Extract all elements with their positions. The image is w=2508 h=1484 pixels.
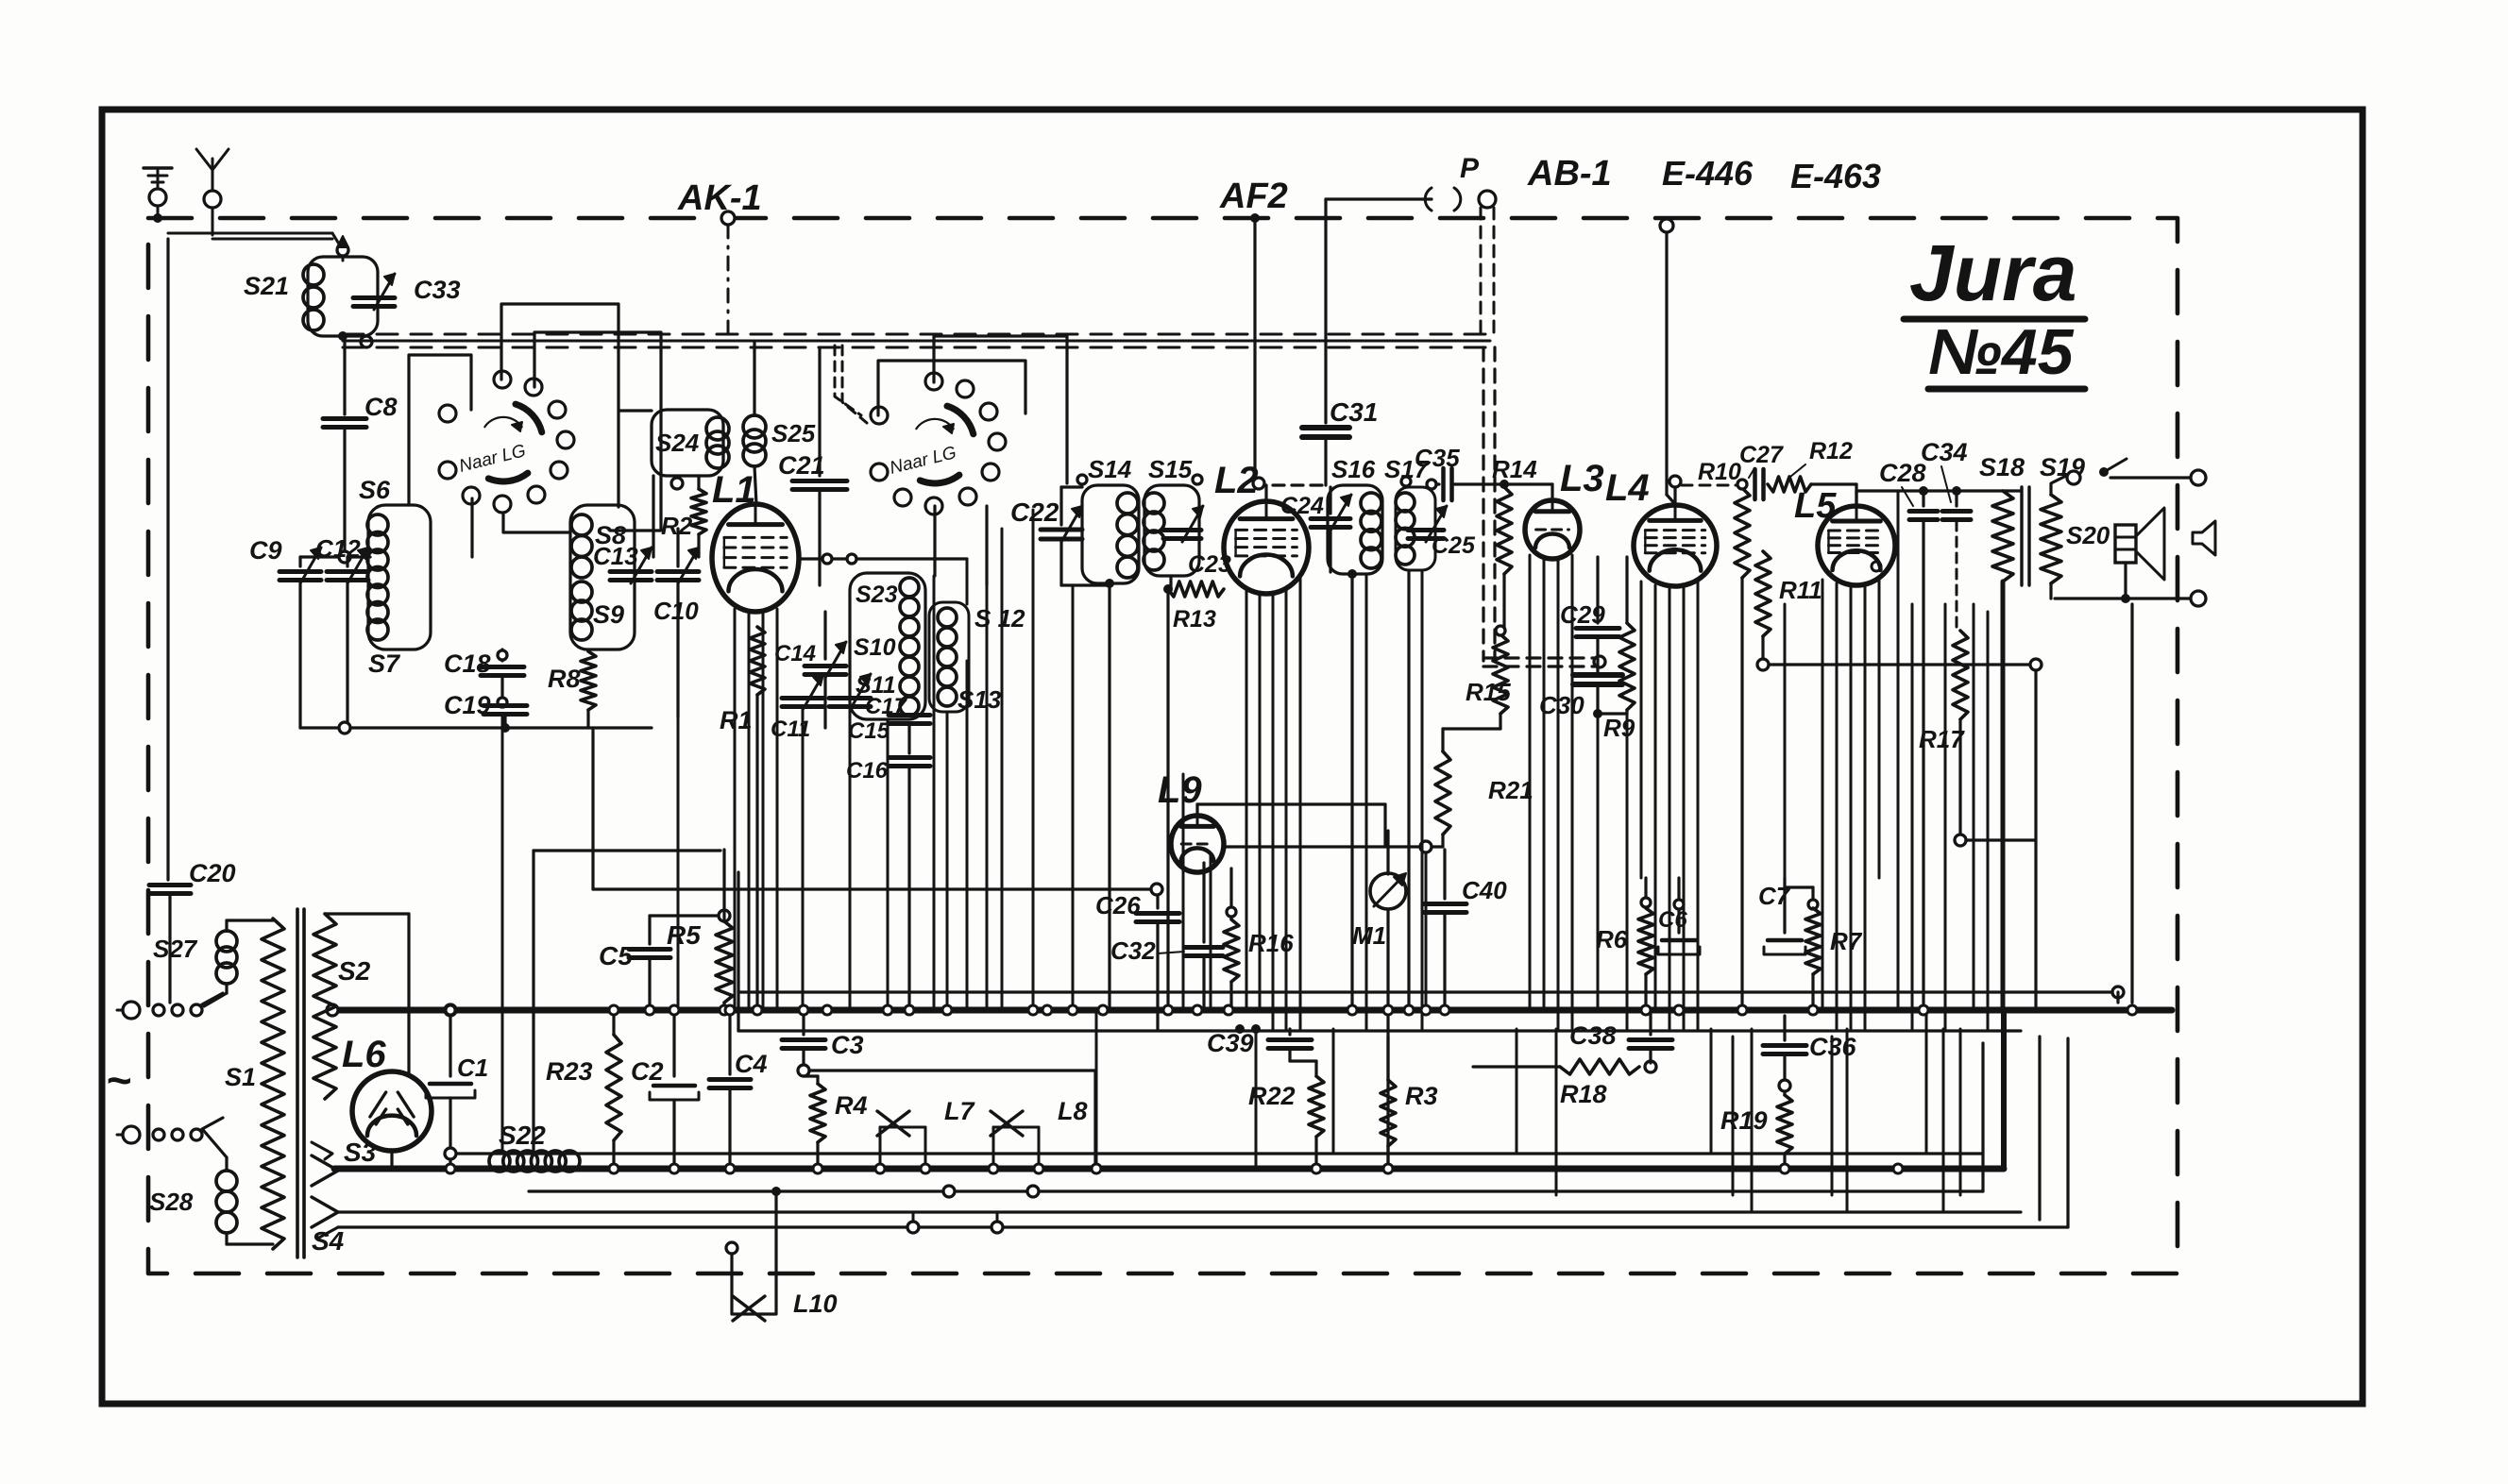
tap S3 — [312, 1155, 338, 1186]
resistor R18 — [1473, 1065, 1560, 1068]
wire R17 tie — [1966, 838, 2036, 841]
wire wafer2 brackets — [878, 361, 1025, 415]
svg-text:C8: C8 — [364, 393, 398, 421]
resistor R19 — [1783, 1091, 1786, 1095]
coil S28 — [216, 1171, 237, 1191]
switch S19 contacts — [2067, 471, 2080, 484]
capacitor C2 — [672, 1010, 675, 1076]
resistor R14 — [1500, 480, 1509, 489]
svg-text:S28: S28 — [149, 1188, 194, 1216]
svg-text:S 12: S 12 — [974, 604, 1025, 632]
coil S6 — [368, 505, 431, 649]
svg-text:S18: S18 — [1979, 453, 2025, 481]
svg-text:C25: C25 — [1432, 532, 1476, 559]
svg-text:L3: L3 — [1560, 458, 1604, 499]
wire bus rail above — [738, 990, 2118, 993]
capacitor C34 — [1955, 491, 1957, 506]
capacitor C21 — [818, 347, 821, 476]
wire S15 drop — [1166, 589, 1169, 1010]
svg-text:C39: C39 — [1207, 1029, 1254, 1057]
mains terminals row 1 — [123, 1002, 140, 1019]
wire right thick riser — [2001, 1010, 2007, 1169]
svg-text:L4: L4 — [1605, 467, 1650, 509]
coil S8 S9 — [570, 505, 635, 649]
capacitor C25 — [1408, 528, 1444, 532]
wire S2 top to L6 — [325, 912, 409, 915]
svg-text:C38: C38 — [1569, 1021, 1617, 1050]
resistor R16 — [1229, 868, 1232, 919]
resistor R23 — [612, 1010, 615, 1035]
svg-text:L7: L7 — [944, 1097, 975, 1125]
svg-text:R14: R14 — [1492, 455, 1537, 483]
rotary switch wafer 1 — [439, 405, 456, 422]
svg-text:R4: R4 — [835, 1091, 868, 1120]
transformer core — [2020, 487, 2023, 585]
capacitor C8 — [343, 336, 346, 414]
wire C3 node rail — [809, 1069, 1095, 1071]
svg-text:L8: L8 — [1058, 1097, 1088, 1125]
wire S6 bottom rail — [300, 726, 652, 729]
capacitor C40 — [1443, 850, 1446, 899]
svg-text:S3: S3 — [344, 1138, 377, 1167]
capacitor C26 — [1156, 895, 1159, 908]
svg-text:C31: C31 — [1330, 397, 1378, 427]
resistor R7 — [1811, 887, 1814, 908]
wire AVC vertical dashed pair — [1482, 347, 1484, 661]
resistor R13 — [1163, 584, 1173, 594]
svg-text:S9: S9 — [593, 600, 624, 629]
coil S21 — [308, 257, 378, 336]
svg-text:S4: S4 — [312, 1226, 345, 1256]
node S21 bottom — [338, 331, 347, 341]
svg-text:M1: M1 — [1352, 921, 1386, 950]
wire lamp returns — [943, 1186, 955, 1197]
svg-text:S21: S21 — [244, 272, 289, 300]
coil S25 — [743, 415, 766, 438]
svg-text:S7: S7 — [368, 649, 401, 678]
svg-text:R13: R13 — [1173, 606, 1216, 632]
transformer S19 — [2041, 495, 2061, 583]
capacitor C39 — [1288, 1029, 1291, 1035]
resistor R17 — [1953, 631, 1968, 719]
svg-text:S20: S20 — [2066, 521, 2110, 549]
svg-text:C10: C10 — [653, 597, 699, 625]
lamp L10 — [726, 1242, 737, 1254]
inner dashed chassis border — [148, 218, 2178, 1273]
svg-text:L1: L1 — [712, 469, 756, 511]
svg-text:AF2: AF2 — [1219, 177, 1288, 216]
svg-text:R21: R21 — [1488, 776, 1534, 804]
resistor R6 — [1644, 878, 1647, 908]
wire L5 top rail — [1855, 491, 1857, 506]
resistor R22 — [1314, 1061, 1317, 1076]
capacitor C18 — [500, 649, 503, 661]
wire S20 bottom — [2124, 563, 2127, 599]
svg-text:L5: L5 — [1794, 486, 1837, 526]
resistor R11 — [1762, 484, 1764, 551]
coil S17 — [1396, 487, 1435, 570]
ground terminal — [149, 189, 166, 206]
svg-text:C4: C4 — [735, 1050, 768, 1078]
svg-text:C21: C21 — [778, 451, 825, 480]
svg-text:C14: C14 — [774, 641, 816, 666]
wire HT bus A (thick) — [338, 1007, 2172, 1014]
capacitor C30 — [1573, 672, 1622, 678]
svg-text:C33: C33 — [414, 276, 461, 304]
svg-text:C20: C20 — [189, 859, 236, 887]
capacitor C31 — [1324, 199, 1327, 423]
svg-text:S16: S16 — [1331, 455, 1376, 483]
svg-text:S23: S23 — [856, 582, 898, 608]
capacitor C11 — [782, 696, 823, 700]
mains terminals row 2 — [123, 1126, 140, 1143]
wire S7 to C18 — [431, 641, 502, 643]
resistor R9 — [1598, 712, 1627, 715]
triode-hexode L1 — [712, 504, 799, 612]
svg-text:C22: C22 — [1010, 497, 1059, 527]
svg-text:C18: C18 — [444, 649, 491, 678]
coil S12 S13 — [929, 602, 969, 712]
wire wafer1 brackets — [409, 355, 471, 505]
node junctions on bus A — [446, 1005, 455, 1015]
svg-text:R5: R5 — [667, 920, 701, 950]
wire S18 primary drop — [2001, 582, 2006, 1010]
svg-text:S15: S15 — [1148, 455, 1193, 483]
svg-text:S2: S2 — [338, 956, 371, 986]
speaker icon — [2193, 521, 2215, 555]
capacitor C38 — [1649, 1010, 1652, 1035]
wire R11 bottom tie — [1769, 663, 2030, 666]
node junctions on heater bus — [446, 1164, 455, 1173]
outer border frame — [102, 110, 2363, 1404]
wire L2 grid top — [1264, 485, 1267, 501]
rotary switch wafer 2 — [871, 407, 888, 424]
pentode L5 — [1818, 506, 1895, 585]
svg-text:R15: R15 — [1466, 678, 1511, 706]
svg-text:C32: C32 — [1110, 936, 1156, 965]
wire L4 top to R10 — [1673, 485, 1676, 505]
svg-text:S14: S14 — [1088, 455, 1132, 483]
output terminal top — [2191, 470, 2206, 485]
capacitor C24 — [1329, 487, 1331, 514]
capacitor C22 — [1059, 487, 1062, 525]
svg-text:R17: R17 — [1919, 725, 1965, 753]
svg-text:R23: R23 — [546, 1057, 593, 1086]
triode L3 — [1525, 500, 1580, 559]
svg-text:C26: C26 — [1095, 891, 1141, 919]
capacitor C23 — [1163, 528, 1201, 532]
svg-text:R11: R11 — [1779, 576, 1822, 604]
svg-text:R7: R7 — [1830, 927, 1863, 955]
resistor R21 — [1443, 727, 1500, 730]
node E-446 wire — [1660, 219, 1673, 232]
svg-text:S13: S13 — [957, 685, 1002, 714]
svg-text:R19: R19 — [1720, 1106, 1768, 1135]
capacitor C1 — [449, 1010, 451, 1076]
resistor R5 — [722, 850, 725, 921]
svg-text:S6: S6 — [359, 476, 391, 504]
lamp L8 — [993, 1126, 1039, 1129]
svg-text:R6: R6 — [1596, 925, 1628, 953]
wire vertical drops to buses — [677, 717, 680, 1010]
svg-text:S1: S1 — [225, 1063, 256, 1091]
meter M1 — [1386, 831, 1389, 874]
svg-text:C16: C16 — [846, 758, 889, 784]
resistor R2 — [697, 476, 700, 489]
capacitor C29 — [1596, 557, 1599, 623]
svg-text:C35: C35 — [1415, 444, 1460, 472]
svg-text:AK-1: AK-1 — [677, 178, 762, 218]
capacitor C6 — [1677, 878, 1680, 933]
speaker S20 — [2115, 525, 2136, 563]
transformer secondary S2 — [313, 914, 336, 1099]
svg-text:C19: C19 — [444, 691, 491, 719]
svg-text:S22: S22 — [499, 1121, 546, 1150]
coil S23 S10 S11 — [850, 573, 925, 719]
wire AVC bus dashed — [343, 333, 1490, 336]
svg-text:C2: C2 — [631, 1057, 664, 1086]
rectifier L6 — [352, 1071, 432, 1151]
capacitor C14 — [823, 612, 826, 659]
svg-text:C28: C28 — [1879, 459, 1926, 487]
wire left drop to C20 — [166, 239, 169, 880]
capacitor C7 — [1783, 878, 1786, 933]
capacitor C5 — [648, 916, 651, 944]
lamp P — [1479, 191, 1496, 208]
transformer core — [296, 909, 299, 1257]
capacitor C15 — [889, 713, 930, 717]
coil S24 — [652, 410, 723, 476]
wire antenna to S21 — [168, 232, 332, 235]
svg-text:C24: C24 — [1280, 493, 1324, 519]
capacitor C27 — [1753, 469, 1757, 499]
capacitor C33 — [342, 274, 344, 295]
svg-text:R3: R3 — [1405, 1082, 1438, 1110]
capacitor C3 — [802, 1010, 805, 1035]
capacitor C20 — [149, 883, 191, 887]
antenna terminal — [204, 191, 221, 208]
coil S15 — [1144, 485, 1199, 576]
capacitor C19 — [483, 703, 527, 708]
node AF2 wire — [1250, 213, 1260, 223]
svg-text:C34: C34 — [1921, 438, 1968, 466]
svg-text:R8: R8 — [548, 665, 581, 693]
svg-text:S27: S27 — [153, 935, 198, 963]
wire aux rail 1 — [529, 1189, 1983, 1192]
wire S22 upper rail — [450, 1152, 1983, 1155]
svg-text:L6: L6 — [342, 1034, 386, 1075]
capacitor C4 — [728, 1010, 731, 1074]
capacitor C13 — [630, 557, 632, 566]
coil S27 — [216, 931, 237, 952]
svg-text:E-463: E-463 — [1790, 157, 1881, 195]
svg-text:AB-1: AB-1 — [1527, 154, 1612, 194]
wire to output terminal top — [2002, 478, 2004, 487]
capacitor C12 — [346, 557, 348, 566]
coil S16 — [1328, 485, 1382, 574]
capacitor C32 — [1202, 863, 1205, 942]
resistor R1 — [756, 612, 758, 627]
svg-text:C1: C1 — [457, 1054, 488, 1082]
capacitor C16 — [889, 755, 930, 760]
wire bus rail B — [738, 1029, 2021, 1032]
svg-text:E-446: E-446 — [1662, 154, 1754, 193]
output terminal bottom — [2191, 591, 2206, 606]
svg-text:R18: R18 — [1560, 1080, 1607, 1108]
svg-text:C27: C27 — [1739, 442, 1784, 468]
svg-text:S24: S24 — [655, 429, 700, 457]
svg-text:~: ~ — [106, 1055, 131, 1105]
svg-text:R2: R2 — [661, 512, 693, 540]
wire heater bus (thick) — [334, 1166, 2004, 1172]
resistor R12 — [1768, 477, 1811, 492]
svg-text:C40: C40 — [1462, 876, 1507, 904]
svg-text:Jura: Jura — [1909, 228, 2076, 317]
wire lamp dashed pair — [1480, 208, 1483, 334]
wire aux rail right risers — [2020, 1033, 2022, 1212]
triode L9 — [1171, 816, 1224, 872]
svg-text:P: P — [1460, 153, 1480, 184]
svg-text:S25: S25 — [771, 419, 816, 447]
svg-text:R12: R12 — [1809, 438, 1853, 464]
resistor R10 — [1735, 488, 1750, 578]
capacitor C9 — [298, 557, 301, 566]
svg-text:C15: C15 — [848, 718, 890, 744]
svg-text:R10: R10 — [1698, 459, 1741, 485]
svg-text:C3: C3 — [831, 1031, 864, 1059]
svg-text:№45: №45 — [1928, 316, 2075, 388]
svg-text:L10: L10 — [793, 1290, 838, 1318]
svg-text:C9: C9 — [249, 536, 282, 565]
tap S4 — [312, 1197, 338, 1227]
capacitor C35 — [1435, 482, 1439, 485]
svg-text:C5: C5 — [599, 941, 633, 970]
node AK-1 terminal — [721, 211, 735, 225]
svg-text:L9: L9 — [1158, 769, 1202, 811]
wire aux rail 2 — [338, 1225, 2068, 1228]
choke S22 — [463, 1168, 489, 1170]
svg-text:L2: L2 — [1214, 460, 1259, 501]
pentode L4 — [1634, 505, 1717, 586]
lamp L7 — [880, 1126, 925, 1129]
svg-text:C12: C12 — [315, 534, 361, 563]
wire grid return rail — [591, 728, 594, 889]
capacitor C10 — [657, 569, 699, 574]
svg-text:C29: C29 — [1560, 600, 1605, 629]
capacitor C17 — [829, 696, 871, 700]
resistor R15 — [1500, 631, 1501, 634]
svg-text:C30: C30 — [1539, 691, 1584, 719]
svg-text:C13: C13 — [593, 542, 638, 570]
transformer S18 — [1992, 491, 2013, 582]
capacitor C28 — [1922, 491, 1924, 506]
pentode L2 — [1224, 501, 1309, 594]
svg-text:S10: S10 — [854, 634, 896, 661]
wire S6 top rail — [300, 555, 370, 558]
capacitor C36 — [1783, 1016, 1786, 1040]
transformer primary S1 — [262, 919, 284, 1249]
resistor R3 — [1386, 1037, 1389, 1080]
wire drops bus to heater rails — [501, 715, 504, 1154]
resistor R8 — [586, 649, 589, 651]
resistor R4 — [816, 1076, 819, 1084]
coil S14 — [1082, 485, 1139, 583]
svg-text:R9: R9 — [1603, 714, 1635, 742]
